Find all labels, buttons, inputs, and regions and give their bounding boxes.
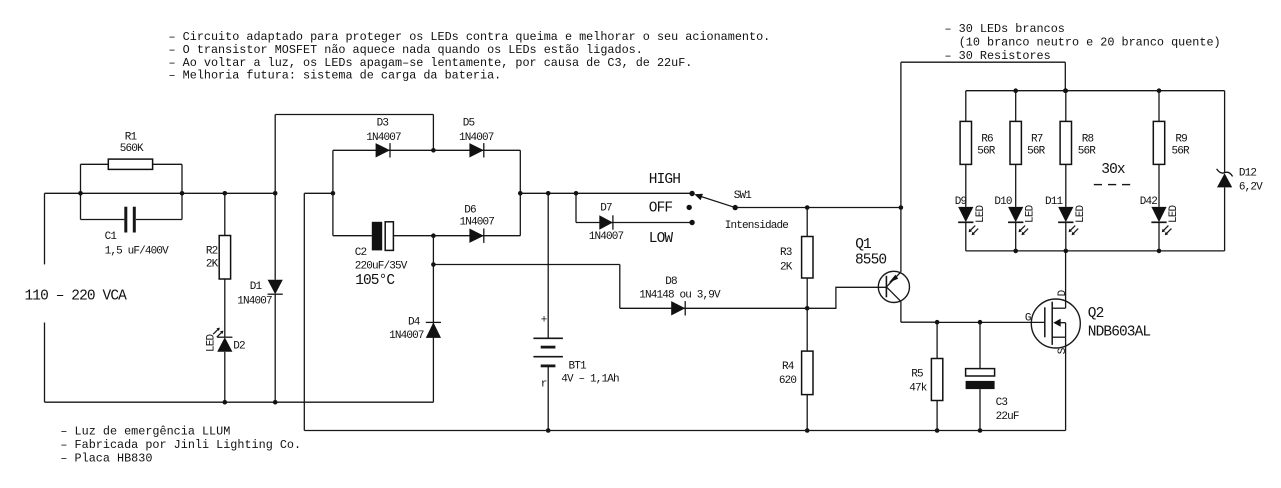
transistor Q2	[1031, 299, 1080, 348]
svg-text:1N4007: 1N4007	[366, 132, 401, 144]
svg-text:2K: 2K	[780, 261, 793, 273]
svg-text:– Fabricada por Jinli Lighting: – Fabricada por Jinli Lighting Co.	[60, 438, 301, 452]
svg-text:SW1: SW1	[734, 190, 753, 202]
resistor R1	[108, 159, 152, 169]
wire feed down	[1064, 62, 1066, 90]
wire gate row	[937, 321, 1045, 323]
capacitor C1	[124, 207, 127, 233]
LED D10 arrows	[1019, 226, 1025, 232]
wire bridge right vertical	[519, 150, 521, 235]
LED D42 arrows	[1162, 226, 1168, 232]
svg-text:D42: D42	[1140, 196, 1158, 208]
svg-text:560K: 560K	[120, 143, 144, 155]
wire AC1 column lower	[432, 236, 434, 403]
wire D7 row	[576, 222, 692, 224]
wire main bus left	[81, 192, 276, 194]
svg-text:(10 branco neutro e 20 branco: (10 branco neutro e 20 branco quente)	[959, 35, 1221, 49]
junction node A right	[180, 191, 185, 196]
wire R4 upper	[806, 308, 808, 351]
junction D8 row tap	[431, 262, 436, 267]
wire R7 upper	[1015, 91, 1017, 122]
svg-text:LED: LED	[1075, 204, 1087, 223]
junction D7 branch	[574, 191, 579, 196]
resistor R3	[802, 237, 813, 279]
wire AC left rail upper	[44, 193, 46, 264]
resistor R4	[802, 351, 813, 395]
wire R1C1 left vertical	[80, 164, 82, 219]
junction R3 top	[805, 205, 810, 210]
wire D1 column upper	[274, 193, 276, 279]
wire bottom rail right	[304, 430, 1065, 432]
diode D1	[268, 280, 283, 294]
wire R1 top right	[153, 163, 182, 165]
junction node A left	[78, 191, 83, 196]
svg-text:2K: 2K	[206, 259, 219, 271]
wire panel bottom rail	[966, 250, 1225, 252]
LED D42	[1151, 207, 1166, 222]
svg-text:LED: LED	[975, 204, 987, 223]
wire C3 upper	[979, 322, 981, 368]
svg-text:22uF: 22uF	[996, 411, 1019, 423]
battery BT1	[533, 337, 563, 339]
wire R6 upper	[965, 91, 967, 122]
wire battery lead top	[547, 193, 549, 338]
svg-text:– Melhoria futura: sistema de: – Melhoria futura: sistema de carga da b…	[169, 69, 502, 83]
wire D11 lower	[1065, 223, 1067, 251]
wire R1C1 right vertical	[181, 164, 183, 219]
wire SW1 output	[735, 207, 901, 209]
svg-text:56R: 56R	[1172, 146, 1191, 158]
wire R5 lower	[936, 401, 938, 431]
wire R2 to D2	[224, 279, 226, 337]
svg-text:BT1: BT1	[569, 361, 588, 373]
junction battery bottom	[546, 428, 551, 433]
wire R5 upper	[936, 322, 938, 358]
wire AC live top	[45, 192, 81, 194]
svg-text:D: D	[1057, 289, 1069, 296]
junction D1 bottom	[273, 400, 278, 405]
svg-text:1N4007: 1N4007	[460, 217, 495, 229]
junction top rail R9	[1157, 88, 1162, 93]
diode D5	[469, 143, 483, 157]
junction Q1 emitter node	[899, 205, 904, 210]
switch SW1 contact OFF	[687, 205, 692, 210]
resistor R6	[960, 121, 971, 164]
wire D3 row	[333, 149, 520, 151]
wire C1 right	[136, 219, 182, 221]
diode D7	[599, 215, 613, 229]
svg-text:R2: R2	[206, 246, 218, 258]
svg-text:1N4007: 1N4007	[589, 231, 624, 243]
svg-text:D1: D1	[250, 281, 263, 293]
wire panel top rail	[966, 90, 1225, 92]
wire D1 column lower	[274, 294, 276, 402]
svg-text:8550: 8550	[855, 252, 886, 268]
svg-text:C2: C2	[355, 247, 367, 259]
junction C2 row tap	[431, 233, 436, 238]
wire Q1 emitter	[900, 208, 902, 272]
svg-text:1N4007: 1N4007	[459, 132, 494, 144]
svg-text:LOW: LOW	[649, 231, 674, 247]
resistor R5	[931, 359, 942, 401]
svg-text:D2: D2	[233, 341, 245, 353]
svg-text:G: G	[1025, 313, 1031, 325]
svg-text:6,2V: 6,2V	[1239, 182, 1263, 194]
dashed mark	[1094, 184, 1102, 186]
svg-text:D11: D11	[1045, 196, 1064, 208]
svg-text:1N4007: 1N4007	[389, 330, 424, 342]
wire collector to R5	[901, 321, 937, 323]
junction R2 top	[223, 191, 228, 196]
junction bridge right	[518, 191, 523, 196]
svg-text:1,5 uF/400V: 1,5 uF/400V	[105, 246, 170, 258]
svg-text:– O transistor MOSFET não aque: – O transistor MOSFET não aquece nada qu…	[169, 43, 643, 57]
resistor R7	[1010, 121, 1021, 164]
svg-text:NDB603AL: NDB603AL	[1088, 325, 1151, 341]
switch SW1 pivot	[733, 205, 738, 210]
wire D12 lower	[1224, 187, 1226, 251]
junction C3 bottom	[978, 428, 983, 433]
wire AC left rail lower	[44, 323, 46, 403]
svg-text:105°C: 105°C	[355, 273, 395, 289]
wire main bus right	[520, 192, 692, 194]
junction bridge AC1	[431, 148, 436, 153]
wire D8 row lower	[620, 307, 807, 309]
svg-text:LED: LED	[1168, 204, 1180, 223]
svg-text:R7: R7	[1031, 133, 1043, 145]
svg-text:LED: LED	[1025, 204, 1037, 223]
wire node A up	[274, 115, 276, 194]
wire C2 right to D6	[393, 235, 520, 237]
junction bottom rail D42	[1157, 249, 1162, 254]
capacitor C3	[966, 369, 995, 376]
wire R9 to D42	[1158, 164, 1160, 207]
svg-text:LED: LED	[206, 333, 218, 352]
wire top link horizontal	[275, 114, 433, 116]
svg-text:R4: R4	[782, 361, 795, 373]
wire bottom neutral rail left	[45, 401, 434, 403]
svg-text:56R: 56R	[1027, 146, 1046, 158]
LED D10	[1008, 207, 1023, 222]
svg-text:HIGH: HIGH	[649, 172, 680, 188]
wire R9 upper	[1158, 91, 1160, 122]
svg-text:D8: D8	[665, 276, 677, 288]
svg-text:D3: D3	[377, 118, 389, 130]
svg-text:Intensidade: Intensidade	[725, 220, 789, 232]
svg-text:R9: R9	[1175, 133, 1187, 145]
svg-text:– 30 Resistores: – 30 Resistores	[945, 49, 1051, 63]
svg-text:+: +	[541, 314, 547, 326]
svg-text:R6: R6	[981, 133, 993, 145]
junction bottom rail D11	[1064, 249, 1069, 254]
LED D11 arrows	[1069, 226, 1075, 232]
transistor Q1	[878, 271, 909, 302]
wire AC2 column	[303, 193, 305, 430]
LED D9 arrows	[969, 226, 975, 232]
wire AC2 stub	[304, 192, 333, 194]
wire D2 to rail	[224, 352, 226, 402]
LED D9	[958, 207, 973, 222]
switch SW1 contact LOW	[689, 220, 694, 225]
svg-text:D6: D6	[464, 204, 476, 216]
svg-text:D5: D5	[463, 118, 475, 130]
wire R8 upper	[1065, 91, 1067, 122]
svg-text:1N4007: 1N4007	[237, 296, 272, 308]
svg-text:4V – 1,1Ah: 4V – 1,1Ah	[561, 374, 619, 386]
svg-text:220uF/35V: 220uF/35V	[355, 261, 408, 273]
wire R6 to D9	[965, 164, 967, 207]
svg-text:110 – 220 VCA: 110 – 220 VCA	[25, 289, 128, 305]
junction Q1 base node	[805, 306, 810, 311]
svg-text:D10: D10	[994, 196, 1012, 208]
wire D8 row upper	[433, 264, 619, 266]
junction R4 bottom	[805, 428, 810, 433]
zener D12	[1217, 169, 1233, 177]
wire battery lead bottom	[547, 366, 549, 431]
LED D2 arrows	[213, 328, 219, 334]
svg-text:620: 620	[779, 375, 797, 387]
wire R4 lower	[806, 395, 808, 431]
resistor R8	[1060, 121, 1071, 164]
wire D42 lower	[1158, 223, 1160, 251]
svg-text:– Circuito adaptado para prote: – Circuito adaptado para proteger os LED…	[169, 30, 771, 44]
wire top link down	[432, 115, 434, 151]
junction feed at top rail	[1063, 88, 1068, 93]
wire C3 lower	[979, 389, 981, 430]
wire C2 left	[333, 235, 372, 237]
wire feed up	[900, 62, 902, 207]
svg-text:R1: R1	[125, 131, 138, 143]
LED D11	[1058, 207, 1073, 222]
svg-text:D4: D4	[408, 316, 421, 328]
svg-text:R3: R3	[780, 247, 792, 259]
svg-text:C1: C1	[105, 231, 118, 243]
svg-text:– Ao voltar a luz, os LEDs apa: – Ao voltar a luz, os LEDs apagam–se len…	[169, 56, 693, 70]
resistor R2	[219, 236, 230, 280]
junction D2 bottom	[223, 400, 228, 405]
svg-text:56R: 56R	[977, 146, 996, 158]
wire D10 lower	[1015, 223, 1017, 251]
junction battery top	[546, 191, 551, 196]
svg-text:– Placa HB830: – Placa HB830	[60, 452, 152, 466]
diode D3	[376, 143, 390, 157]
LED D2	[217, 337, 232, 352]
svg-text:30x: 30x	[1101, 162, 1126, 178]
wire R3 upper	[806, 208, 808, 237]
wire R1 top left	[81, 163, 109, 165]
wire D8 corner down	[619, 265, 621, 309]
wire bridge left vertical	[332, 150, 334, 235]
wire feed top	[901, 61, 1065, 63]
switch SW1 arm	[701, 197, 735, 208]
svg-text:D9: D9	[955, 196, 967, 208]
wire R7 to D10	[1015, 164, 1017, 207]
junction R5 top	[935, 320, 940, 325]
wire Q1 collector	[900, 301, 902, 322]
wire R8 to D11	[1065, 164, 1067, 207]
svg-text:D7: D7	[600, 203, 612, 215]
junction top rail R8	[1064, 88, 1069, 93]
wire R2 column upper	[224, 193, 226, 235]
junction D1 top	[273, 191, 278, 196]
svg-text:56R: 56R	[1078, 146, 1097, 158]
wire Q1 base jog	[807, 287, 886, 308]
junction C3 top	[978, 320, 983, 325]
wire D12 upper	[1224, 91, 1226, 173]
wire D7 branch down	[575, 193, 577, 222]
wire Q2 drain up	[1065, 251, 1067, 308]
svg-text:D12: D12	[1239, 168, 1257, 180]
svg-text:Q2: Q2	[1088, 306, 1104, 322]
svg-text:– Luz de emergência LLUM: – Luz de emergência LLUM	[60, 425, 230, 439]
diode D4	[426, 322, 441, 338]
junction bridge left	[331, 191, 336, 196]
capacitor C2	[372, 222, 382, 251]
diode D8	[671, 301, 685, 315]
wire R3 lower	[806, 278, 808, 308]
diode D6	[469, 229, 483, 243]
svg-text:C3: C3	[996, 397, 1008, 409]
junction bottom rail D10	[1013, 249, 1018, 254]
junction top rail R7	[1013, 88, 1018, 93]
wire Q2 source down	[1065, 337, 1067, 430]
svg-text:OFF: OFF	[649, 201, 673, 217]
resistor R9	[1153, 121, 1164, 164]
switch SW1 contact HIGH	[689, 191, 694, 196]
svg-text:47k: 47k	[909, 383, 928, 395]
svg-text:R5: R5	[911, 369, 923, 381]
junction R5 bottom	[935, 428, 940, 433]
svg-text:1N4148 ou 3,9V: 1N4148 ou 3,9V	[639, 289, 721, 301]
wire C1 left	[81, 219, 125, 221]
wire D9 lower	[965, 223, 967, 251]
svg-text:Q1: Q1	[855, 237, 871, 253]
svg-text:r: r	[541, 379, 547, 391]
svg-text:– 30 LEDs brancos: – 30 LEDs brancos	[945, 22, 1065, 36]
svg-text:R8: R8	[1082, 133, 1094, 145]
